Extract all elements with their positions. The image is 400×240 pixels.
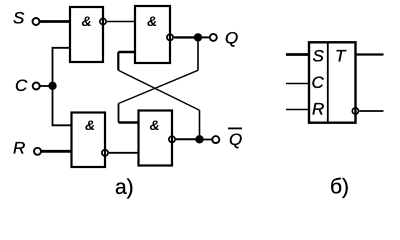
svg-text:C: C: [15, 76, 28, 95]
wire feedback Qbar diagonal to upper-left: [118, 70, 199, 110]
wire R input of U1: [286, 109, 309, 111]
terminal S input: [33, 18, 40, 25]
gate DD1.3 (NAND & bottom-left): [72, 113, 106, 168]
junction C node: [48, 82, 56, 90]
svg-text:Q: Q: [229, 130, 242, 149]
wire feedback Q diagonal to lower-left: [119, 70, 199, 103]
inversion bubble DD1.2 output: [167, 34, 173, 40]
svg-text:C: C: [312, 73, 325, 92]
inversion bubble DD1.4 output: [169, 136, 175, 142]
wire feedback Q vertical into DD1.4: [118, 104, 120, 123]
svg-text:S: S: [313, 46, 325, 65]
inversion bubble DD1.1 output: [100, 18, 106, 24]
terminal R input: [34, 148, 41, 155]
wire S input of U1: [286, 53, 309, 56]
svg-text:Q: Q: [225, 29, 238, 48]
terminal C input: [33, 83, 40, 90]
overline of Qbar: [228, 127, 242, 129]
wire feedback Q into DD1.4 upper input: [119, 121, 139, 124]
svg-text:&: &: [82, 13, 92, 29]
wire node Qbar to terminal: [204, 139, 213, 141]
divider U1: [327, 42, 329, 122]
wire feedback Qbar into DD1.2 lower input: [118, 51, 135, 54]
gate DD1.4 (NAND & bottom-right): [139, 111, 173, 166]
svg-text:S: S: [13, 9, 25, 28]
svg-text:а): а): [115, 176, 134, 199]
wire feedback Qbar vertical into DD1.2: [117, 52, 119, 70]
inversion bubble DD1.3 output: [102, 150, 108, 156]
wire C branch down to DD1.3 upper input: [53, 86, 72, 125]
svg-text:R: R: [13, 138, 25, 157]
inversion bubble U1 Qbar output: [352, 108, 358, 114]
svg-text:б): б): [330, 176, 349, 199]
wire DD1.4 out to node Qbar: [176, 138, 196, 140]
wire R to gate DD1.3: [41, 150, 71, 153]
block symbol U1 (RS trigger): [309, 42, 356, 122]
wire C branch up to DD1.1 lower input: [53, 48, 71, 86]
gate DD1.2 (NAND & top-right): [135, 6, 170, 63]
wire Q output of U1: [356, 53, 384, 55]
wire DD1.3 out to DD1.4: [109, 152, 139, 154]
wire DD1.1 out to DD1.2: [107, 21, 135, 23]
terminal Q output: [210, 34, 217, 41]
svg-text:&: &: [85, 117, 95, 133]
svg-text:T: T: [335, 46, 347, 65]
gate DD1.1 (NAND & top-left): [70, 7, 103, 62]
junction node Q: [194, 33, 202, 41]
terminal Qbar output: [212, 136, 219, 143]
svg-text:&: &: [147, 13, 157, 29]
wire feedback Qbar up: [199, 110, 201, 139]
junction node Qbar: [195, 135, 203, 143]
wire feedback Q down: [197, 37, 199, 70]
wire node Q to terminal: [202, 36, 210, 38]
svg-text:&: &: [150, 117, 160, 133]
wire DD1.2 out to node Q: [174, 36, 195, 38]
svg-text:R: R: [312, 100, 324, 119]
wire C input of U1: [286, 83, 309, 85]
wire C to junction: [40, 85, 53, 87]
wire Qbar output of U1: [359, 110, 383, 112]
wire S to gate DD1.1: [40, 20, 70, 23]
